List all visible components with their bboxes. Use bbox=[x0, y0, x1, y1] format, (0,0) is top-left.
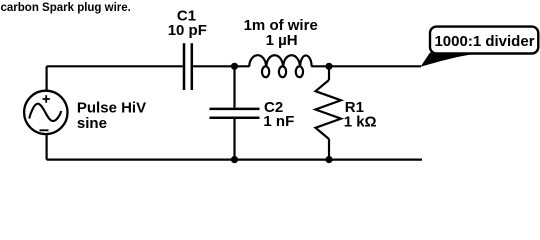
source minus sign bbox=[40, 129, 49, 131]
svg-text:carbon Spark plug wire.: carbon Spark plug wire. bbox=[1, 2, 131, 14]
wire inductor to callout tail bbox=[311, 65, 421, 67]
node junction dot bottom R1 bbox=[325, 156, 332, 163]
capacitor C1 plates bbox=[184, 43, 192, 90]
callout tail bbox=[421, 53, 472, 67]
source V1 circle bbox=[24, 91, 67, 134]
resistor R1 bottom lead bbox=[328, 139, 330, 160]
node junction dot top-right (R1 tap) bbox=[325, 63, 332, 70]
wire left vertical below source bbox=[45, 134, 47, 159]
svg-text:1 kΩ: 1 kΩ bbox=[344, 114, 377, 131]
resistor R1 top lead bbox=[328, 66, 330, 80]
source plus sign bbox=[43, 95, 50, 102]
wire left vertical above source bbox=[45, 66, 47, 90]
svg-text:1000:1 divider: 1000:1 divider bbox=[434, 33, 534, 50]
svg-text:1 nF: 1 nF bbox=[263, 113, 294, 130]
capacitor C2 branch wire lower bbox=[233, 119, 235, 160]
inductor L1 coil bbox=[249, 55, 311, 77]
resistor R1 zigzag bbox=[316, 80, 342, 139]
source sine wave bbox=[29, 104, 61, 121]
svg-text:10 pF: 10 pF bbox=[168, 22, 207, 39]
svg-text:sine: sine bbox=[77, 115, 107, 132]
svg-text:1 µH: 1 µH bbox=[266, 32, 298, 49]
capacitor C2 vertical branch wire upper bbox=[233, 66, 235, 107]
callout box 1000:1 divider bbox=[430, 27, 538, 54]
node junction dot top-left (C2 tap) bbox=[231, 63, 238, 70]
wire C1 to inductor bbox=[193, 65, 250, 67]
wire bottom horizontal bbox=[47, 159, 422, 161]
node junction dot bottom C2 bbox=[231, 156, 238, 163]
wire top-left horizontal (source to C1) bbox=[47, 65, 183, 67]
capacitor C2 plates bbox=[210, 109, 260, 118]
